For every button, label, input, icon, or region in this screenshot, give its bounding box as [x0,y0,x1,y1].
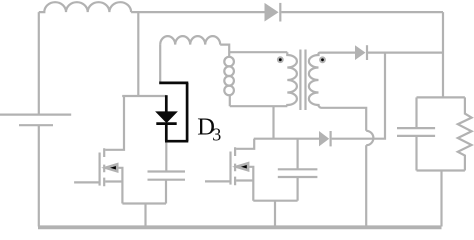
wire primary loop branch down [272,106,274,139]
wire C1 top lead to D3 cathode [165,141,167,172]
wire Lm bottom stub [229,95,231,106]
svg-text:3: 3 [212,124,221,144]
transistor Q1 channel dashes [103,148,105,186]
wire Q1 source horizontal [122,202,166,204]
wire primary loop bottom horizontal [230,105,287,107]
transformer primary dot [278,57,283,62]
transistor Q1 drain lead [105,96,124,150]
wire battery minus lead down to ground rail [38,125,40,226]
wire C2 top lead [297,139,299,170]
capacitor C output plates [397,128,435,136]
wire L2 right lead elbow [220,45,229,58]
wire L2 left lead down to D3 branch [159,45,161,82]
inductor L1 [39,2,131,12]
diode D2 [355,45,366,60]
diode D3 cathode stub [165,124,168,142]
battery Vg bottom plate [19,124,53,126]
wire output right vertical [442,12,444,97]
wire output capacitor bottom lead [415,136,417,171]
wire battery plus lead up to L1 [38,12,40,115]
transistor Q1 bottom dash lead [105,180,122,182]
transformer secondary dot [320,57,325,62]
diode D4 [319,131,329,146]
wire crossover hop [366,131,373,145]
transistor Q1 gate bar [98,153,100,186]
inductor L2 [160,36,220,45]
wire D3 black top horizontal [159,82,188,85]
wire D2 cathode to output [368,51,443,53]
wire L1 to D1 anode [131,11,264,13]
capacitor C2 plates [278,169,318,177]
wire secondary top lead to D2 [319,53,356,54]
transistor Q2 gate bar [229,152,231,185]
transistor Q1 gate lead [74,181,100,183]
transistor Q2 bottom dash lead [236,179,253,181]
resistor R load [458,97,472,170]
transistor Q1 body arrow [106,164,118,171]
wire secondary bottom lead [319,105,367,131]
wire C1 bottom lead [165,180,167,204]
diode D3 triangle [156,112,176,123]
wire output return lead [440,171,442,227]
diode D1 [265,3,279,22]
wire output capacitor top lead [415,97,417,128]
transistor Q2 body arrow [237,163,249,170]
wire D1 cathode to output corner [281,11,443,13]
transformer core [300,50,305,111]
transformer magnetizing winding Lm [224,57,234,67]
wire D4 cathode to output branch [332,53,385,139]
transistor Q2 drain lead [236,139,254,149]
transistor Q2 source lead [247,167,253,201]
wire middle row horizontal [254,138,319,140]
wire Q2 source to ground rail [274,201,276,227]
transformer secondary winding [309,53,319,107]
wire Q2 source horizontal [253,200,297,202]
wire D3 black right vertical [186,83,189,141]
wire output top horizontal [417,96,465,98]
battery Vg top plate [0,113,71,115]
transformer magnetizing winding top branch [229,51,287,53]
transistor Q2 channel dashes [234,147,236,185]
wire D3 black bottom horizontal [165,140,188,143]
transistor Q2 gate lead [205,180,231,182]
transformer primary winding [287,52,297,106]
wire secondary return to ground rail [365,145,367,226]
wire C2 bottom lead [297,177,299,201]
wire output bottom horizontal [417,169,465,171]
capacitor C1 plates [148,172,186,180]
diode D3 (highlighted) anode stub [156,83,188,141]
node A: wire from top rail down to Q1/D3 row [137,12,139,96]
wire Q1 drain row to D3 anode [122,95,166,97]
wire Q1 source to ground rail [144,204,146,227]
ground rail [38,225,442,229]
diode D3 cathode bar [156,122,176,125]
transistor Q1 source lead [116,168,122,204]
